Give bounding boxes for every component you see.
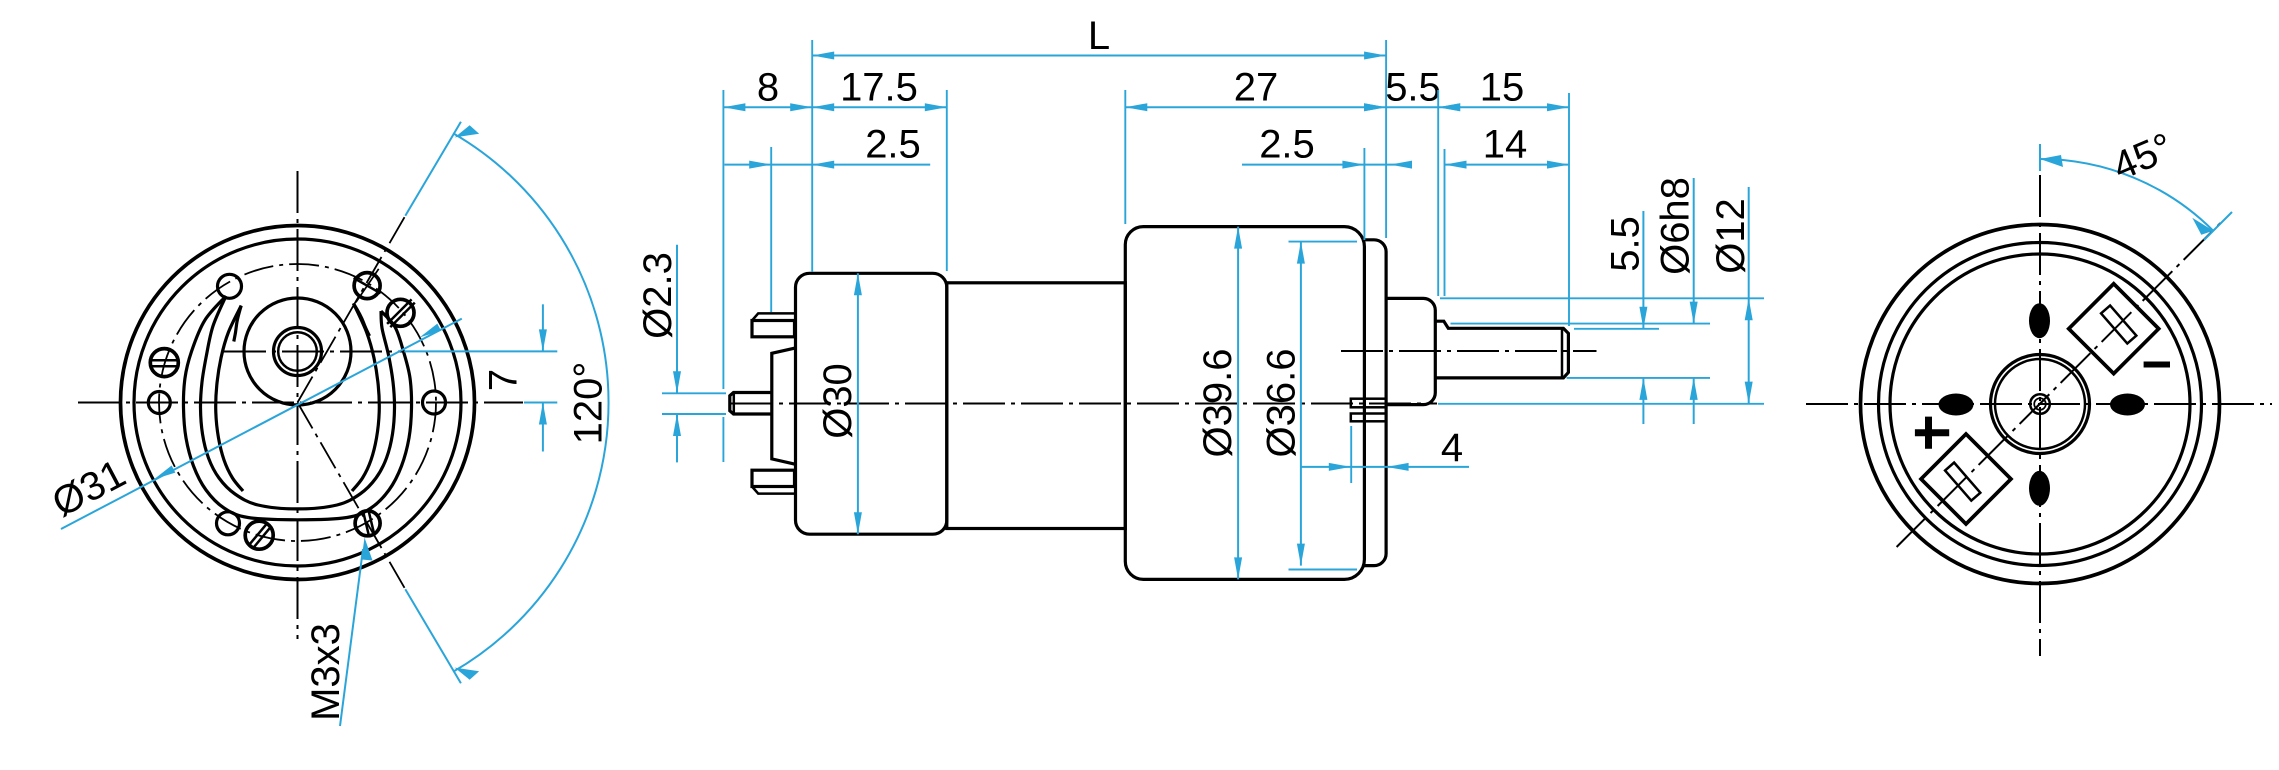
Ø30 arrow bottom [854,512,862,534]
dim 5.5 vertical line lower [1642,378,1644,424]
svg-text:5.5: 5.5 [1604,216,1648,272]
cyan tick above centerline [2039,144,2041,171]
14 arrow left [1445,161,1467,169]
ext boss bottom y403.8 [1438,403,1764,405]
dim 4 line [1301,466,1469,468]
svg-text:Ø6h8: Ø6h8 [1654,177,1698,275]
dim Ø36.6 line [1300,242,1302,566]
gearbox flange lip [1364,240,1386,566]
dim 7 arrow lower [539,403,547,425]
dim 15 line [1438,106,1569,108]
extension line x771 (pin) [770,147,772,312]
Ø36.6 ext bottom [1289,569,1358,571]
M3x3 leader line [340,549,363,726]
dim Ø39.6 line [1237,227,1239,580]
radial line +60deg cyan extension [405,122,461,216]
mounting hole top-left (plain) [218,274,242,298]
svg-text:17.5: 17.5 [840,66,918,110]
rear shaft stub [730,393,772,415]
M3 hole bottom-right with slot [355,510,380,536]
dim Ø31 arrow upper [418,324,441,341]
5.5v arrow lower [1639,378,1647,400]
extension line x1446 [1444,149,1446,296]
2.5R arrow at 1364 [1342,161,1364,169]
outer body circle [1861,225,2220,584]
rear bearing boss inner [1995,359,2085,449]
svg-text:2.5: 2.5 [865,123,921,167]
extension line x1438 [1437,90,1439,296]
dim Ø2.3 line lower [676,414,678,462]
dim Ø31 arrow lower [152,466,175,483]
mounting hole right (plain) [423,391,446,414]
output shaft bore inner [278,332,317,371]
cyan diagonal extension [2204,212,2232,240]
extension line x946 [946,90,948,271]
8 arrow left [723,103,745,111]
output shaft tip edge [1561,328,1564,378]
rear bearing boss outer [1991,355,2090,454]
dim 5.5 vertical line upper [1642,211,1644,329]
output shaft [1435,321,1568,378]
vertical centerline [297,171,299,639]
crescent inner curve [200,296,394,509]
inner flange circle [134,239,461,566]
spiral sliver edge left [234,306,241,342]
dim Ø31 leader line [61,319,462,529]
output bearing boss [1386,298,1435,404]
Ø36.6 arrow top [1297,242,1305,264]
mounting hole bottom-left (plain) [217,512,240,535]
17.5 arrow right [925,103,947,111]
screw head bottom-left with slot [245,521,273,549]
ext boss top y298 [1440,297,1764,299]
terminal block lower-left (diamond) [1921,434,2011,524]
dim Ø2.3 ext top [662,392,726,394]
dim 8 line [723,106,812,108]
L arrow left [812,52,834,60]
radial line -60deg cyan extension [405,589,461,683]
L arrow right [1364,52,1386,60]
rear shaft center slash [2036,400,2045,409]
M3x3 arrow [362,538,373,561]
15 arrow right [1547,103,1569,111]
ext shaft top y323.6 [1451,323,1711,325]
svg-text:Ø39.6: Ø39.6 [1196,349,1240,458]
svg-text:Ø30: Ø30 [816,363,860,439]
ext shaft bottom y377.9 [1567,377,1710,379]
M3 hole top-right with cross [354,269,381,302]
dim 7 line upper [542,304,544,351]
outer flange circle [121,226,475,580]
dim 17.5 line [812,106,947,108]
dim arc 45deg [2040,159,2213,231]
svg-text:7: 7 [482,369,526,391]
terminal pin bottom [752,470,795,493]
shaft horizontal centerline [224,351,404,353]
5.5 arrow left outside [1364,103,1386,111]
vent slot left [1939,394,1974,416]
27 arrow right [1364,103,1386,111]
motor body [947,283,1126,529]
extension line x1386 [1385,40,1387,238]
15 arrow left [1438,103,1460,111]
5.5v arrow upper [1639,307,1647,329]
Ø39.6 arrow bottom [1234,557,1242,579]
svg-text:4: 4 [1441,426,1463,470]
dim 7 centerline extension cyan [524,402,557,404]
svg-text:27: 27 [1234,66,1279,110]
dim 7 line lower [542,403,544,452]
extension line x812 [811,40,813,272]
vent slot bottom [2029,471,2050,506]
svg-text:Ø12: Ø12 [1709,198,1753,274]
Ø2.3 arrow upper [673,371,681,393]
dim Ø30 line [857,273,859,534]
svg-text:5.5: 5.5 [1385,66,1441,110]
terminal block upper-right (diamond) [2069,284,2159,374]
plus sign [1915,417,1949,449]
Ø12 arrow bottom [1745,382,1753,404]
dim 2.5 left line [724,164,930,166]
Ø36.6 ext top [1289,241,1358,243]
dim 7 extension line (shaft axis) [404,350,557,352]
svg-text:120°: 120° [567,362,611,445]
output shaft centerline [1341,350,1597,352]
45 arc arrow right [2192,218,2213,235]
gearbox housing [1125,227,1364,580]
extension line x1569 [1568,93,1570,326]
Ø30 arrow top [854,273,862,295]
rear shaft center detail [2034,398,2046,410]
main horizontal centerline [731,403,1437,405]
minus sign [2144,362,2170,368]
dim L line [812,55,1386,57]
svg-text:8: 8 [757,66,779,110]
Ø6h8 arrow lower [1690,378,1698,400]
extension line x1125 [1124,90,1126,224]
rear shaft tip edge [733,393,736,415]
rear shaft end circle [2030,394,2050,414]
terminal slot lower-left [1945,463,1980,501]
Ø12 arrow top [1745,298,1753,320]
svg-text:2.5: 2.5 [1259,123,1315,167]
2.5L arrow at 812 [812,161,834,169]
4 arrow right outside [1387,463,1409,471]
4 arrow left outside [1329,463,1351,471]
svg-text:Ø2.3: Ø2.3 [636,252,680,339]
brush housing boss [772,348,795,464]
crescent innermost spiral curve left [216,306,243,491]
tab upper [1351,399,1386,408]
Ø6h8 arrow upper [1690,302,1698,324]
vent slot right [2110,394,2145,416]
vent slot top [2029,303,2050,338]
Ø36.6 arrow bottom [1297,544,1305,566]
dim Ø6h8 line lower [1693,378,1695,424]
Ø2.3 arrow lower [673,414,681,436]
dim 27 line [1125,106,1386,108]
extension line x723 lower [722,417,724,462]
dim 5.5 line (top row, outside arrows) [1386,106,1438,108]
extension line x723 upper [722,90,724,389]
2.5L arrow at 771 [749,161,771,169]
14 arrow right [1547,161,1569,169]
hole left on centerline (plain) [148,392,170,414]
svg-text:15: 15 [1480,66,1525,110]
terminal pin top [752,313,795,336]
horizontal centerline [78,402,523,404]
dim arc 120deg [453,133,608,672]
svg-text:14: 14 [1483,123,1528,167]
svg-text:L: L [1088,14,1110,58]
radial line -60deg (lower) [298,403,406,590]
5.5 arrow right outside [1438,103,1460,111]
17.5 arrow left [812,103,834,111]
arc arrow bottom [453,660,479,682]
motor end cap [796,273,947,534]
vertical centerline [2039,175,2041,656]
arc arrow top [453,123,479,145]
8 arrow right [790,103,812,111]
ext flat y328.8 [1574,328,1659,330]
screw head left with slot [150,349,178,377]
terminal slot upper-right [2101,305,2136,343]
radial line +60deg (upper) [298,216,406,403]
svg-text:Ø36.6: Ø36.6 [1260,349,1304,458]
extension line x1364 (gearbox right edge) [1363,148,1365,240]
dim Ø2.3 ext bottom [662,413,726,415]
bolt circle (dash-dot) [159,264,436,541]
spiral sliver edge right [353,303,369,336]
screw head right with slash [387,299,415,327]
svg-text:M3x3: M3x3 [304,623,348,721]
tab extension line [1350,426,1352,483]
dim Ø6h8 line upper [1693,178,1695,324]
crescent outer curve [183,296,411,520]
middle body circle [1879,243,2202,566]
horizontal centerline [1806,403,2272,405]
dim 7 arrow upper [539,329,547,351]
inner body circle [1890,254,2190,554]
27 arrow left [1125,103,1147,111]
tab lower [1351,414,1386,422]
dim Ø12 line [1748,187,1750,404]
45deg diagonal centerline [1897,221,2223,548]
Ø39.6 arrow top [1234,227,1242,249]
dim Ø2.3 line upper [676,245,678,394]
output shaft bore outer [274,328,322,376]
gear chamber circle around shaft [244,298,351,405]
dim 2.5 right line [1242,164,1412,166]
2.5R arrow at 1386 [1390,161,1412,169]
crescent innermost spiral curve right [352,303,379,491]
dim 14 line [1445,164,1570,166]
45 arc arrow left [2040,155,2063,167]
